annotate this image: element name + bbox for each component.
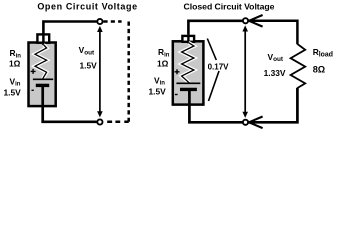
svg-text:1.5V: 1.5V [149,86,167,96]
svg-text:Rin: Rin [158,47,170,58]
dashed open-circuit right wire [127,22,130,122]
0.17V bracket bottom segment [209,71,220,101]
svg-text:8Ω: 8Ω [313,65,325,75]
wire top-left (closed circuit) [188,21,242,35]
battery plate thin (+) B2 [176,82,200,84]
svg-text:1.33V: 1.33V [264,68,286,78]
wire top-left (open circuit) [43,22,96,35]
resistor Rin zigzag (closed circuit) [182,43,194,83]
wire bottom-left (closed circuit) [189,89,242,122]
node bottom (open circuit) [97,119,102,124]
battery plate thick (-) B1 [36,84,49,87]
svg-text:1Ω: 1Ω [157,58,169,68]
svg-text:1.5V: 1.5V [4,87,22,97]
battery plate thin (+) B1 [33,78,53,80]
battery box B1 [29,43,56,107]
current arrowhead bottom [249,117,263,129]
minus sign B2 [175,94,178,96]
dashed open-circuit top wire [103,20,121,23]
svg-text:0.17V: 0.17V [208,62,230,71]
svg-text:Vin: Vin [154,75,165,86]
wire top-right (closed circuit) [249,21,298,44]
svg-text:Vout: Vout [79,45,95,56]
wire bottom-left (open circuit) [43,85,97,121]
svg-text:1Ω: 1Ω [9,58,21,68]
svg-text:Vout: Vout [268,52,284,63]
plus sign B2 [175,69,180,74]
node top (closed circuit) [243,18,248,23]
resistor RLoad zigzag [291,44,306,88]
0.17V bracket top segment [207,39,216,61]
Vout measure arrow (closed circuit) [244,30,246,114]
wire bottom-right (closed circuit) [249,88,298,123]
svg-text:Closed Circuit Voltage: Closed Circuit Voltage [184,2,275,12]
svg-text:1.5V: 1.5V [80,60,98,70]
minus sign B1 [32,89,34,91]
plus sign B1 [31,69,36,74]
svg-text:Vin: Vin [10,76,21,87]
node bottom (closed circuit) [243,120,248,125]
dashed open-circuit bottom wire [107,121,129,124]
current arrowhead top [249,15,263,27]
node top (open circuit) [97,19,102,24]
Vout measure arrow (open circuit) [99,31,101,114]
battery box B2 [173,41,204,104]
wire terminal stub B2 [187,35,189,44]
resistor Rin zigzag (open circuit) [35,45,47,79]
battery top terminal B1 [37,34,49,42]
svg-text:Open Circuit Voltage: Open Circuit Voltage [37,2,137,12]
battery top terminal B2 [182,36,194,42]
svg-text:Rload: Rload [313,47,333,58]
battery plate thick (-) B2 [180,88,197,91]
wire terminal stub B1 [42,34,45,46]
